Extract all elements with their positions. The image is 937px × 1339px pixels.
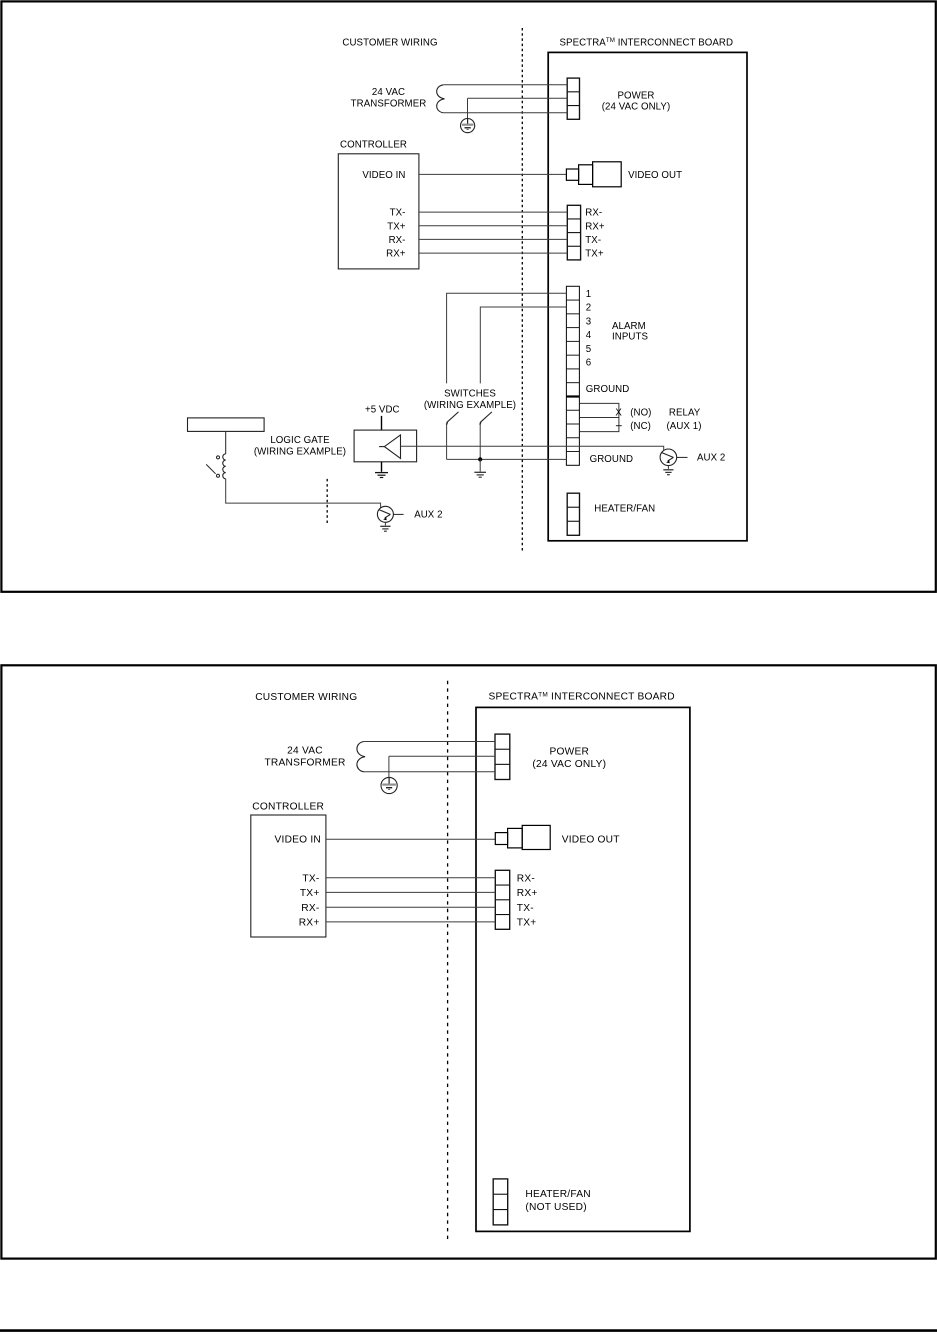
- svg-text:24 VAC: 24 VAC: [372, 87, 405, 98]
- svg-text:VIDEO IN: VIDEO IN: [275, 835, 321, 846]
- svg-text:(24 VAC ONLY): (24 VAC ONLY): [532, 759, 606, 770]
- controller box (fig 1): [338, 154, 419, 269]
- logic gate U2 box (wiring example): [354, 430, 417, 462]
- ground symbol G5 (Q2 emitter): [380, 526, 390, 531]
- svg-text:RX-: RX-: [585, 208, 602, 219]
- svg-text:TX-: TX-: [517, 903, 534, 914]
- wire VIDEO IN to VIDEO OUT connector (fig 2): [326, 838, 495, 840]
- svg-text:AUX 2: AUX 2: [697, 453, 725, 464]
- wire ground bus to TB3 GROUND cell: [447, 458, 567, 460]
- svg-text:3: 3: [586, 316, 591, 327]
- svg-text:(24 VAC ONLY): (24 VAC ONLY): [602, 101, 671, 112]
- ground symbol G3 (logic gate): [375, 473, 388, 478]
- svg-text:(WIRING EXAMPLE): (WIRING EXAMPLE): [424, 400, 516, 411]
- svg-text:TX+: TX+: [517, 918, 537, 929]
- ground symbol G6 (earth ground in circle, fig 2): [381, 777, 397, 793]
- svg-text:TRANSFORMER: TRANSFORMER: [351, 99, 427, 110]
- svg-text:VIDEO IN: VIDEO IN: [362, 170, 405, 181]
- svg-text:1: 1: [586, 289, 591, 300]
- connector J1 VIDEO OUT (BNC, fig 1): [566, 162, 621, 187]
- wire switch S2 to ground bus: [479, 423, 481, 459]
- interconnect board outline U1: [548, 52, 747, 540]
- wire transformer bottom lead to TB1-3: [443, 112, 567, 114]
- svg-text:+5 VDC: +5 VDC: [365, 404, 400, 415]
- svg-text:RELAY: RELAY: [669, 408, 701, 419]
- transformer T2 winding symbol (fig 2): [357, 742, 365, 772]
- svg-text:GROUND: GROUND: [586, 384, 630, 395]
- svg-text:HEATER/FAN: HEATER/FAN: [525, 1189, 590, 1200]
- dashed separator stub (fig 1 lower): [326, 479, 328, 526]
- svg-text:GROUND: GROUND: [590, 454, 634, 465]
- wire TX- to RX-: [419, 211, 567, 213]
- wire logic gate output to AUX 2 input (crosses to board): [401, 446, 664, 450]
- ground symbol G1 (earth ground in circle, fig 1): [461, 119, 475, 133]
- terminal block TB1 POWER (fig 1): [567, 78, 579, 119]
- wire logic gate ground lead: [381, 462, 383, 472]
- svg-text:POWER: POWER: [550, 747, 590, 758]
- svg-text:X: X: [615, 408, 622, 419]
- svg-text:(NO): (NO): [630, 408, 651, 419]
- svg-text:SPECTRATM INTERCONNECT BOARD: SPECTRATM INTERCONNECT BOARD: [560, 37, 734, 48]
- interconnect board outline U3 (fig 2): [476, 707, 690, 1231]
- figure 2 border frame: [1, 665, 935, 1258]
- svg-text:24 VAC: 24 VAC: [287, 746, 323, 757]
- terminal block TB7 HEATER/FAN (fig 2): [493, 1179, 508, 1225]
- svg-text:POWER: POWER: [618, 90, 655, 101]
- svg-text:CUSTOMER WIRING: CUSTOMER WIRING: [342, 37, 437, 48]
- transistor Q1 AUX 2 open-collector output (fig 1): [660, 449, 677, 466]
- wire center lead down to earth ground (fig 2): [388, 756, 390, 777]
- ground symbol G4 (Q1 emitter): [663, 470, 673, 475]
- svg-text:CONTROLLER: CONTROLLER: [252, 801, 324, 812]
- wire K2 box to coil: [225, 431, 227, 453]
- wire transformer top lead to TB1-1: [443, 84, 567, 86]
- svg-text:RX-: RX-: [301, 903, 319, 914]
- ground symbol G2 (below switches): [474, 472, 486, 477]
- logic gate U2 buffer triangle: [384, 435, 400, 459]
- svg-text:(WIRING EXAMPLE): (WIRING EXAMPLE): [254, 446, 346, 457]
- svg-text:RX-: RX-: [389, 235, 406, 246]
- svg-text:RX+: RX+: [585, 221, 605, 232]
- svg-text:(NOT USED): (NOT USED): [525, 1202, 586, 1213]
- terminal block TB5 POWER (fig 2): [495, 734, 510, 779]
- svg-text:TRANSFORMER: TRANSFORMER: [264, 757, 345, 768]
- wire transformer top lead to TB5-1: [364, 741, 495, 743]
- relay NC tick: [616, 425, 622, 427]
- junction node (S2 / ground bus): [478, 457, 482, 461]
- transformer T1 winding symbol (fig 1): [437, 85, 445, 113]
- transistor Q2 AUX 2 open-collector output (example, fig 1): [377, 506, 393, 522]
- svg-text:HEATER/FAN: HEATER/FAN: [594, 504, 655, 515]
- switch S2 blade: [480, 412, 492, 423]
- wire TX+ to RX+ (fig 2): [326, 891, 495, 893]
- controller box (fig 2): [251, 815, 326, 937]
- switch S1 blade: [447, 412, 459, 423]
- wire Q1 emitter to ground: [667, 466, 669, 469]
- svg-text:CUSTOMER WIRING: CUSTOMER WIRING: [255, 692, 357, 703]
- wire RX+ to TX+ (fig 2): [326, 921, 495, 923]
- svg-text:4: 4: [586, 330, 592, 341]
- terminal block TB4 HEATER/FAN (fig 1): [567, 493, 579, 535]
- svg-text:6: 6: [586, 358, 591, 369]
- svg-text:TX-: TX-: [585, 235, 601, 246]
- figure 1 border frame: [1, 1, 935, 591]
- wire K2 coil to AUX 2 (customer side): [226, 479, 381, 508]
- wire Q2 output stub: [393, 513, 403, 515]
- svg-text:TX-: TX-: [302, 873, 319, 884]
- svg-text:CONTROLLER: CONTROLLER: [340, 139, 407, 150]
- relay K2 coil box (customer device, wiring example): [188, 418, 265, 432]
- dashed separator line (customer wiring / board) figure 2: [447, 681, 449, 1243]
- dashed separator line (customer wiring / board) figure 1: [521, 28, 523, 552]
- switch S3 contact (limit switch): [206, 456, 219, 477]
- relay K1 contact outline (NO/NC): [579, 403, 619, 431]
- svg-text:TX+: TX+: [387, 221, 406, 232]
- connector J2 VIDEO OUT (BNC, fig 2): [495, 825, 550, 849]
- page footer rule: [0, 1329, 937, 1332]
- wire VIDEO IN to VIDEO OUT connector: [419, 173, 567, 175]
- svg-text:LOGIC GATE: LOGIC GATE: [270, 435, 330, 446]
- wire Q1 output stub: [677, 456, 688, 458]
- divider line between alarm block and relay block: [566, 395, 579, 397]
- wire alarm input 2 to switch S2: [480, 307, 566, 383]
- svg-text:RX+: RX+: [517, 888, 538, 899]
- wire TX+ to RX+: [419, 225, 567, 227]
- svg-text:RX+: RX+: [299, 918, 320, 929]
- svg-text:2: 2: [586, 303, 591, 314]
- wire switch S1 to ground bus: [446, 423, 448, 459]
- svg-text:RX-: RX-: [517, 873, 535, 884]
- svg-text:VIDEO OUT: VIDEO OUT: [628, 170, 682, 181]
- svg-text:SPECTRATM INTERCONNECT BOARD: SPECTRATM INTERCONNECT BOARD: [489, 691, 675, 702]
- terminal block TB3 alarm/relay/ground strip (fig 1): [566, 286, 579, 465]
- wire Q2 emitter to ground: [384, 522, 386, 525]
- wire RX+ to TX+: [419, 252, 567, 254]
- svg-text:SWITCHES: SWITCHES: [444, 389, 496, 400]
- wire transformer center lead to TB5-2: [389, 755, 495, 757]
- svg-text:RX+: RX+: [386, 249, 406, 260]
- wire transformer center lead to TB1-2: [468, 97, 568, 99]
- wire +5 VDC supply to logic gate: [381, 416, 383, 430]
- svg-text:AUX 2: AUX 2: [414, 510, 442, 521]
- wire alarm input 1 to switch S1: [447, 293, 567, 383]
- svg-text:(NC): (NC): [630, 421, 651, 432]
- inductor L1 coil (4 loops): [223, 454, 226, 479]
- terminal block TB2 RS-422 (fig 1): [567, 205, 580, 260]
- svg-text:VIDEO OUT: VIDEO OUT: [562, 835, 620, 846]
- wire RX- to TX-: [419, 238, 567, 240]
- svg-text:TX-: TX-: [390, 208, 406, 219]
- svg-text:(AUX 1): (AUX 1): [667, 421, 702, 432]
- svg-text:5: 5: [586, 344, 591, 355]
- terminal block TB6 RS-422 (fig 2): [495, 870, 509, 929]
- wire TX- to RX- (fig 2): [326, 877, 495, 879]
- wire center lead down to earth ground: [467, 98, 469, 118]
- wire transformer bottom lead to TB5-3: [364, 771, 495, 773]
- wire RX- to TX- (fig 2): [326, 906, 495, 908]
- svg-text:TX+: TX+: [585, 249, 604, 260]
- svg-text:TX+: TX+: [300, 888, 320, 899]
- wire junction down to earth ground: [479, 459, 481, 471]
- svg-text:INPUTS: INPUTS: [612, 331, 648, 342]
- wire relay common: [579, 417, 619, 419]
